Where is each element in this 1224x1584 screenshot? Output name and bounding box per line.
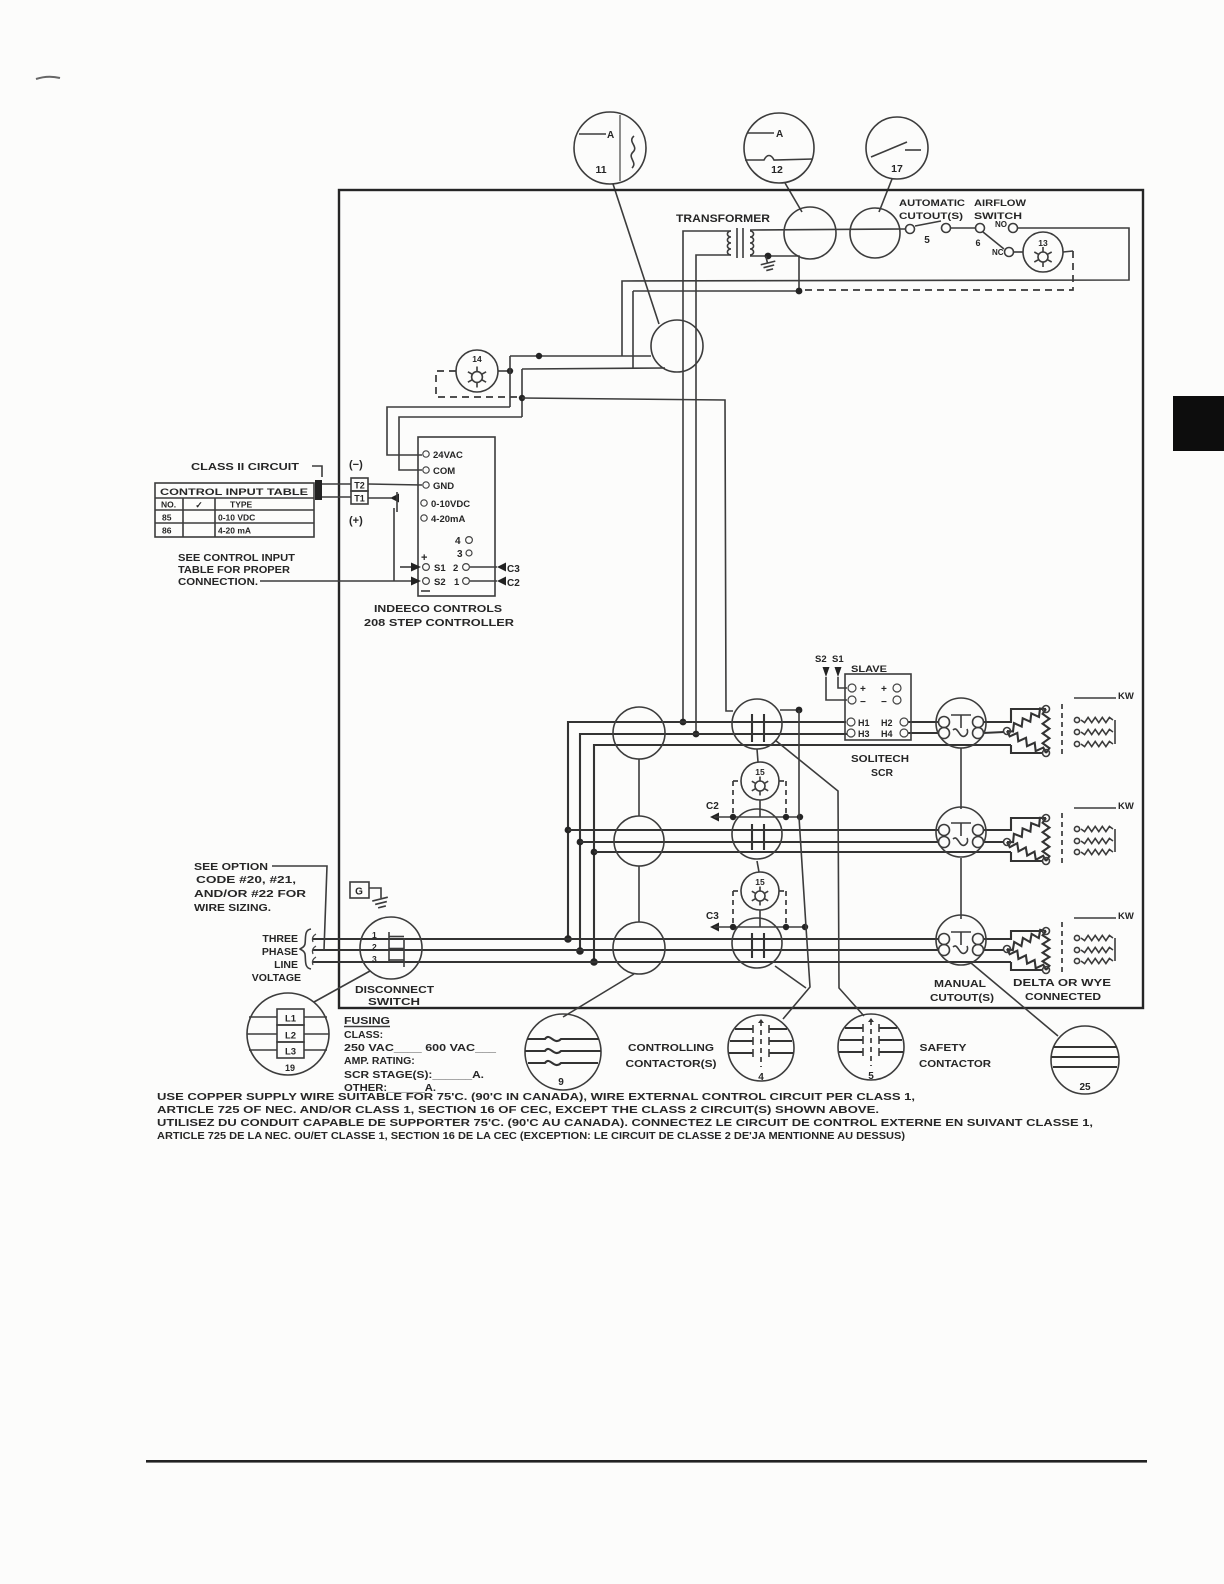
svg-text:PHASE: PHASE (262, 946, 298, 958)
wire: transformer secondary top to cutouts (750, 229, 905, 230)
svg-text:(+): (+) (349, 515, 363, 527)
svg-text:AND/OR #22 FOR: AND/OR #22 FOR (194, 888, 307, 900)
wire to C3 (470, 566, 497, 568)
svg-text:CONNECTED: CONNECTED (1025, 991, 1101, 1003)
svg-text:24VAC: 24VAC (433, 450, 463, 461)
row1 manual cutout (936, 698, 986, 748)
wire: NC to lamp 13 (1014, 251, 1023, 253)
svg-text:CONNECTION.: CONNECTION. (178, 576, 258, 588)
terminal T1 (351, 491, 368, 504)
svg-text:SCR STAGE(S):______A.: SCR STAGE(S):______A. (344, 1069, 484, 1081)
wire: row3 contactor to coil drop (775, 966, 806, 988)
svg-text:250 VAC____ 600 VAC___: 250 VAC____ 600 VAC___ (344, 1042, 496, 1054)
svg-text:L3: L3 (285, 1047, 296, 1058)
row2 manual cutout (936, 807, 986, 857)
leader: disconnect to balloon 19 (314, 971, 370, 1002)
row1 heater elements KW (1074, 697, 1116, 699)
svg-text:(−): (−) (349, 459, 363, 471)
svg-text:C3: C3 (706, 911, 719, 922)
svg-text:17: 17 (891, 163, 903, 175)
svg-text:0-10VDC: 0-10VDC (431, 499, 470, 510)
svg-text:4-20mA: 4-20mA (431, 514, 465, 525)
balloon 4 controlling contactor (728, 1015, 794, 1081)
phase bus risers (568, 722, 846, 939)
terminal GND (423, 482, 429, 488)
svg-text:−: − (860, 697, 866, 708)
svg-text:3: 3 (372, 954, 377, 964)
svg-text:5: 5 (924, 235, 930, 246)
svg-text:12: 12 (771, 164, 783, 176)
svg-text:SCR: SCR (871, 768, 894, 779)
svg-text:S1: S1 (832, 654, 844, 665)
row1 contactor K1 (732, 699, 782, 749)
Solitech SCR slave box (845, 674, 911, 740)
svg-text:2: 2 (372, 942, 377, 952)
svg-text:CLASS:: CLASS: (344, 1029, 383, 1041)
row2 balloon anchor (614, 816, 664, 866)
row3 delta heater (1007, 930, 1046, 950)
svg-text:A: A (607, 130, 614, 141)
svg-text:1: 1 (372, 930, 377, 940)
svg-text:+: + (860, 684, 866, 695)
page tab (1173, 396, 1224, 451)
row3 balloon anchor (613, 922, 665, 974)
svg-text:11: 11 (595, 164, 606, 176)
meter balloon 12 (744, 113, 814, 183)
svg-text:19: 19 (285, 1063, 295, 1073)
row2 delta heater (1007, 818, 1046, 842)
svg-text:3: 3 (457, 549, 463, 560)
svg-text:DISCONNECT: DISCONNECT (355, 984, 435, 996)
svg-text:CONTROL INPUT TABLE: CONTROL INPUT TABLE (160, 487, 308, 498)
svg-text:C2: C2 (706, 801, 719, 812)
disconnect switch (360, 917, 422, 979)
lamp 15 (C3) (757, 861, 759, 872)
leader from balloon 12 (785, 183, 802, 212)
balloon 19 terminal blocks (247, 993, 329, 1075)
svg-text:COM: COM (433, 466, 455, 477)
svg-text:+: + (881, 684, 887, 695)
svg-text:6: 6 (975, 238, 980, 248)
row2 wires (568, 829, 939, 831)
row1 coil tap (780, 709, 799, 711)
svg-text:USE COPPER SUPPLY WIRE SUITABL: USE COPPER SUPPLY WIRE SUITABLE FOR 75'C… (157, 1092, 915, 1103)
svg-text:5: 5 (868, 1071, 874, 1082)
svg-text:T2: T2 (354, 481, 365, 491)
svg-text:CONTROLLING: CONTROLLING (628, 1042, 714, 1054)
control input table (155, 483, 314, 537)
wire: NO contact to control loop (622, 228, 1129, 356)
row3 heater elements KW (1074, 917, 1116, 919)
signal input riser (393, 508, 395, 581)
page mark (36, 77, 60, 79)
svg-text:GND: GND (433, 481, 454, 492)
svg-text:CODE #20, #21,: CODE #20, #21, (196, 874, 296, 886)
terminal 4-20mA (421, 515, 427, 521)
balloon 25 heater leads (1051, 1026, 1119, 1094)
svg-text:MANUAL: MANUAL (934, 978, 987, 990)
svg-text:ARTICLE 725 OF NEC. AND/OR CLA: ARTICLE 725 OF NEC. AND/OR CLASS 1, SECT… (157, 1105, 879, 1116)
G terminal (350, 882, 369, 898)
wires table to terminals (318, 483, 351, 485)
terminal 0-10VDC (421, 500, 427, 506)
svg-text:15: 15 (755, 877, 765, 887)
wire: transformer secondary bottom (750, 256, 799, 291)
svg-text:UTILISEZ DU CONDUIT CAPABLE DE: UTILISEZ DU CONDUIT CAPABLE DE SUPPORTER… (157, 1118, 1093, 1129)
svg-text:85: 85 (162, 513, 172, 523)
balloon 5 safety contactor (838, 1014, 904, 1080)
svg-text:2: 2 (453, 563, 458, 574)
svg-text:CONTACTOR: CONTACTOR (919, 1058, 991, 1070)
svg-text:SWITCH: SWITCH (368, 996, 420, 1008)
svg-text:−: − (881, 697, 887, 708)
svg-text:208 STEP CONTROLLER: 208 STEP CONTROLLER (364, 617, 515, 629)
svg-text:LINE: LINE (274, 959, 298, 971)
svg-text:15: 15 (755, 767, 765, 777)
svg-text:KW: KW (1118, 691, 1134, 702)
terminal 24VAC (423, 451, 429, 457)
indicator lamp 14 (456, 350, 498, 392)
svg-text:9: 9 (558, 1077, 564, 1088)
wire to C2 (470, 580, 497, 582)
svg-text:CUTOUT(S): CUTOUT(S) (930, 992, 994, 1004)
wire/dashed: lamp 13 return (1063, 251, 1073, 252)
svg-text:ARTICLE 725 DE LA NEC. OU/ET C: ARTICLE 725 DE LA NEC. OU/ET CLASSE 1, S… (157, 1131, 905, 1142)
svg-text:DELTA OR WYE: DELTA OR WYE (1013, 977, 1111, 989)
svg-text:S1: S1 (434, 563, 446, 574)
svg-text:H4: H4 (881, 729, 893, 739)
leader: balloon anchors to fuse balloon 9 (563, 974, 634, 1017)
balloon anchor (12) (784, 207, 836, 259)
svg-text:INDEECO CONTROLS: INDEECO CONTROLS (374, 603, 502, 615)
svg-text:S2: S2 (434, 577, 446, 588)
wire: safety contactor drop to balloon 5 (775, 740, 864, 1016)
dashed option box for lamp 14 (436, 371, 519, 397)
svg-text:✓: ✓ (195, 500, 203, 510)
svg-text:86: 86 (162, 526, 172, 536)
svg-text:H2: H2 (881, 718, 893, 728)
wire: COM return (399, 417, 522, 470)
wire: junction to secondary (633, 290, 799, 292)
balloon anchor (17) (850, 208, 900, 258)
svg-text:THREE: THREE (262, 933, 298, 945)
svg-text:C3: C3 (507, 564, 520, 575)
svg-text:A: A (776, 129, 783, 140)
svg-text:13: 13 (1038, 238, 1048, 248)
svg-text:4: 4 (455, 536, 461, 547)
svg-text:H1: H1 (858, 718, 870, 728)
row3 manual cutout (936, 915, 986, 965)
svg-text:AIRFLOW: AIRFLOW (974, 198, 1026, 209)
footer rule (146, 1460, 1147, 1463)
svg-text:KW: KW (1118, 801, 1134, 812)
leader from balloon 17 (879, 179, 892, 212)
svg-text:NO.: NO. (161, 500, 176, 510)
svg-text:TABLE FOR PROPER: TABLE FOR PROPER (178, 564, 290, 576)
fuse balloon 9 (525, 1014, 601, 1090)
svg-text:14: 14 (472, 354, 482, 364)
switch balloon 17 (866, 117, 928, 179)
svg-text:G: G (355, 887, 363, 898)
leader: cutouts to balloon 25 (971, 963, 1058, 1036)
svg-text:VOLTAGE: VOLTAGE (252, 972, 301, 984)
leader from balloon 11 (613, 184, 659, 324)
wire: 24VAC feed (387, 407, 510, 455)
ground at transformer secondary (759, 254, 777, 271)
input arrows to S1,S2 (400, 566, 412, 568)
svg-text:FUSING: FUSING (344, 1015, 390, 1027)
svg-text:L2: L2 (285, 1031, 296, 1042)
wire: contactor coils to balloon 4 (783, 710, 810, 1019)
svg-text:AUTOMATIC: AUTOMATIC (899, 198, 965, 209)
svg-text:NO: NO (995, 220, 1007, 229)
svg-text:SEE OPTION: SEE OPTION (194, 861, 268, 873)
svg-text:L1: L1 (285, 1014, 297, 1025)
wire: lamp 14 to 24VAC feed (498, 370, 510, 372)
row3 contactor K3 (732, 918, 782, 968)
wire: to contactor coil row1 (522, 398, 733, 711)
meter balloon 11 (574, 112, 646, 184)
svg-text:WIRE SIZING.: WIRE SIZING. (194, 902, 271, 914)
terminal T2 (351, 478, 368, 491)
row2 contactor K2 (732, 809, 782, 859)
svg-text:S2: S2 (815, 654, 827, 665)
enclosure border (339, 190, 1143, 1008)
svg-text:AMP. RATING:: AMP. RATING: (344, 1055, 415, 1067)
svg-text:TYPE: TYPE (230, 500, 253, 510)
svg-text:T1: T1 (354, 494, 365, 504)
svg-text:4: 4 (758, 1072, 764, 1083)
svg-text:+: + (421, 552, 427, 564)
svg-text:TRANSFORMER: TRANSFORMER (676, 213, 770, 225)
svg-text:25: 25 (1079, 1082, 1091, 1093)
svg-text:H3: H3 (858, 729, 870, 739)
three phase lines (313, 938, 939, 940)
ground symbol (372, 897, 389, 909)
svg-text:4-20 mA: 4-20 mA (218, 526, 251, 536)
wire row1 H2 to cutout (908, 721, 939, 723)
controller box U1 (418, 437, 495, 596)
wire T2 to GND (368, 484, 422, 485)
indicator lamp 13 (1023, 232, 1063, 272)
terminal COM (423, 467, 429, 473)
svg-text:NC: NC (992, 248, 1004, 257)
svg-text:0-10 VDC: 0-10 VDC (218, 513, 255, 523)
row1 balloon anchor (613, 707, 665, 759)
svg-text:CONTACTOR(S): CONTACTOR(S) (626, 1058, 717, 1070)
svg-text:SEE CONTROL INPUT: SEE CONTROL INPUT (178, 552, 296, 564)
svg-text:SLAVE: SLAVE (851, 664, 887, 675)
svg-text:1: 1 (454, 577, 460, 588)
svg-text:CUTOUT(S): CUTOUT(S) (899, 211, 963, 222)
svg-text:KW: KW (1118, 911, 1134, 922)
svg-text:CLASS II CIRCUIT: CLASS II CIRCUIT (191, 461, 300, 473)
svg-text:C2: C2 (507, 578, 520, 589)
lamp 15 (C2) (757, 749, 758, 762)
wire: transformer primary to row 1 phases (683, 231, 731, 722)
row1 delta heater (1007, 709, 1046, 732)
svg-text:SOLITECH: SOLITECH (851, 754, 909, 765)
terminal S2 1 (423, 578, 430, 585)
node: junction balloon (11) (651, 320, 703, 372)
wires row1 cutout to delta (983, 709, 1043, 722)
row2 heater elements KW (1074, 807, 1116, 809)
svg-text:SAFETY: SAFETY (920, 1042, 967, 1054)
